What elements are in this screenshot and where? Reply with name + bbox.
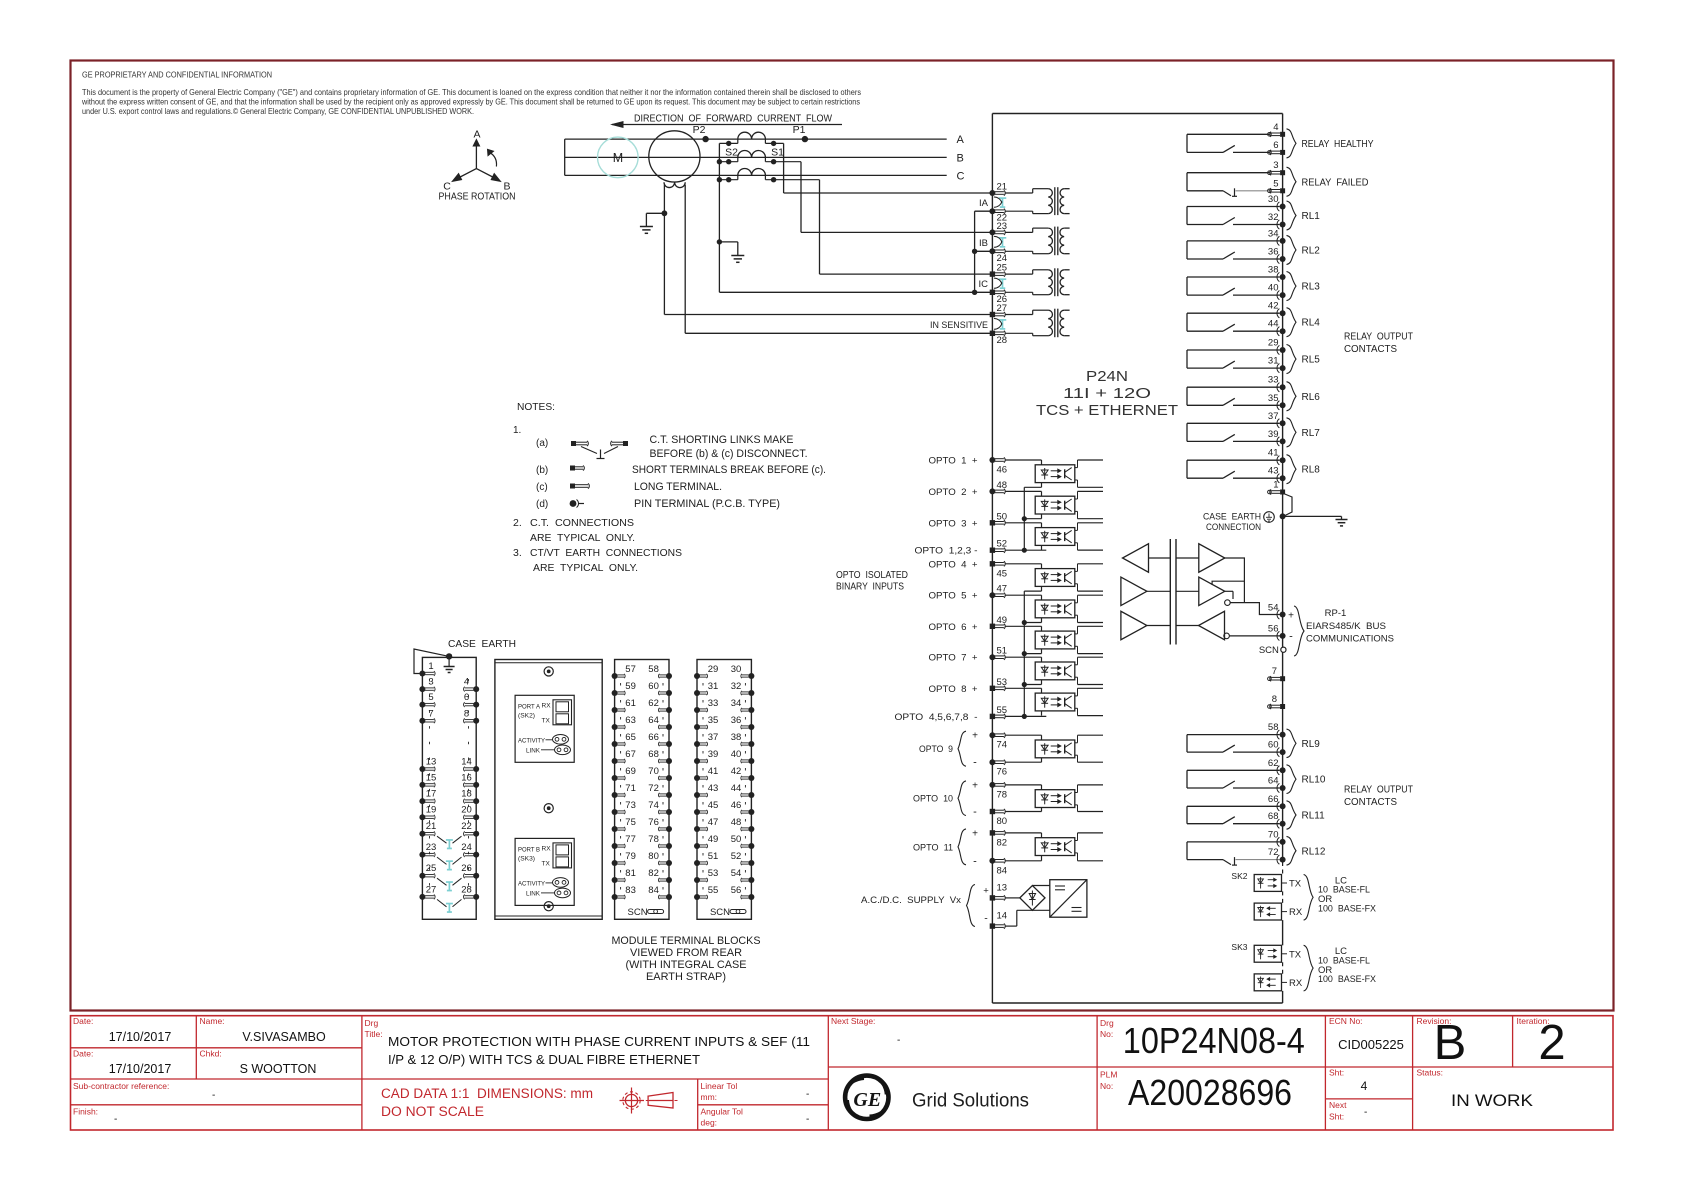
svg-text:28: 28 [461, 884, 472, 895]
svg-text:19: 19 [426, 805, 437, 816]
svg-text:76: 76 [997, 767, 1008, 778]
svg-text:42: 42 [731, 766, 742, 777]
svg-text:51: 51 [708, 851, 719, 862]
svg-text:64: 64 [648, 715, 659, 726]
svg-text:P24N: P24N [1086, 369, 1128, 385]
svg-text:BINARY INPUTS: BINARY INPUTS [836, 582, 904, 593]
svg-text:MOTOR PROTECTION WITH PHASE CU: MOTOR PROTECTION WITH PHASE CURRENT INPU… [388, 1035, 810, 1049]
svg-text:60: 60 [648, 681, 659, 692]
svg-text:28: 28 [997, 335, 1008, 346]
svg-text:72: 72 [1268, 847, 1279, 858]
svg-text:35: 35 [708, 715, 719, 726]
svg-text:34: 34 [731, 698, 742, 709]
svg-text:PORT A: PORT A [518, 703, 541, 710]
svg-text:8: 8 [1272, 694, 1277, 705]
svg-text:50: 50 [997, 511, 1008, 522]
svg-text:21: 21 [997, 182, 1008, 193]
svg-text:ECN No:: ECN No: [1329, 1016, 1363, 1026]
svg-text:75: 75 [625, 817, 636, 828]
svg-text:Next Stage:: Next Stage: [831, 1016, 875, 1026]
svg-text:22: 22 [461, 821, 472, 832]
svg-text:TX: TX [1289, 949, 1302, 960]
svg-text:2: 2 [1538, 1016, 1565, 1070]
svg-text:73: 73 [625, 800, 636, 811]
svg-text:IB: IB [979, 238, 988, 249]
svg-text:17: 17 [426, 789, 437, 800]
svg-text:37: 37 [1268, 411, 1279, 422]
svg-text:5: 5 [1273, 178, 1278, 189]
svg-text:79: 79 [625, 851, 636, 862]
svg-text:30: 30 [1268, 194, 1279, 205]
svg-text:OPTO ISOLATED: OPTO ISOLATED [836, 570, 908, 581]
svg-text:23: 23 [997, 221, 1008, 232]
svg-text:IC: IC [979, 279, 989, 290]
svg-text:7: 7 [1272, 666, 1277, 677]
svg-text:SHORT TERMINALS BREAK BEFORE (: SHORT TERMINALS BREAK BEFORE (c). [632, 464, 826, 476]
svg-text:84: 84 [997, 865, 1008, 876]
svg-text:31: 31 [1268, 356, 1279, 367]
svg-text:OPTO 11: OPTO 11 [913, 842, 953, 853]
svg-text:50: 50 [731, 834, 742, 845]
svg-text:63: 63 [625, 715, 636, 726]
svg-text:ARE TYPICAL ONLY.: ARE TYPICAL ONLY. [530, 532, 635, 544]
svg-text:LINK: LINK [526, 890, 541, 897]
svg-text:ARE TYPICAL ONLY.: ARE TYPICAL ONLY. [533, 562, 638, 574]
svg-text:CID005225: CID005225 [1338, 1037, 1404, 1052]
svg-text:RELAY FAILED: RELAY FAILED [1302, 177, 1369, 188]
svg-text:I/P & 12 O/P) WITH TCS & DUAL: I/P & 12 O/P) WITH TCS & DUAL FIBRE ETHE… [388, 1053, 700, 1067]
svg-text:B: B [1434, 1016, 1467, 1070]
svg-text:Title:: Title: [365, 1029, 383, 1039]
svg-text:49: 49 [997, 615, 1008, 626]
svg-text:40: 40 [731, 749, 742, 760]
svg-text:82: 82 [648, 868, 659, 879]
svg-text:68: 68 [648, 749, 659, 760]
svg-text:11I + 12O: 11I + 12O [1063, 386, 1151, 402]
svg-text:-: - [114, 1114, 117, 1125]
svg-text:-: - [973, 757, 977, 769]
svg-text:6: 6 [464, 692, 469, 703]
svg-text:+: + [972, 731, 978, 742]
svg-text:100 BASE-FX: 100 BASE-FX [1318, 974, 1377, 985]
svg-text:ACTIVITY: ACTIVITY [518, 880, 546, 887]
svg-text:8: 8 [464, 708, 469, 719]
svg-text:45: 45 [708, 800, 719, 811]
svg-text:Next: Next [1329, 1100, 1347, 1110]
svg-text:GE: GE [853, 1089, 881, 1111]
svg-text:EIARS485/K BUS: EIARS485/K BUS [1306, 621, 1386, 632]
svg-text:32: 32 [731, 681, 742, 692]
svg-text:72: 72 [648, 783, 659, 794]
svg-text:RL11: RL11 [1302, 811, 1326, 822]
svg-text:32: 32 [1268, 212, 1279, 223]
svg-text:66: 66 [1268, 794, 1279, 805]
svg-text:47: 47 [997, 584, 1008, 595]
svg-text:1.: 1. [513, 425, 521, 436]
svg-text:29: 29 [1268, 338, 1279, 349]
svg-text:RL12: RL12 [1302, 846, 1326, 857]
svg-text:13: 13 [997, 882, 1008, 893]
svg-text:OPTO 4,5,6,7,8 -: OPTO 4,5,6,7,8 - [895, 712, 978, 723]
svg-text:Date:: Date: [73, 1016, 93, 1026]
svg-text:23: 23 [426, 842, 437, 853]
svg-text:OPTO 3 +: OPTO 3 + [929, 518, 978, 529]
svg-text:CASE EARTH: CASE EARTH [1203, 512, 1261, 523]
svg-text:29: 29 [708, 664, 719, 675]
svg-text:14: 14 [997, 911, 1008, 922]
svg-text:B: B [957, 152, 964, 164]
svg-text:OPTO 5 +: OPTO 5 + [929, 591, 978, 602]
svg-text:Grid Solutions: Grid Solutions [912, 1091, 1029, 1112]
svg-text:PLM: PLM [1100, 1070, 1117, 1080]
svg-text:56: 56 [1268, 624, 1279, 635]
svg-text:SCN: SCN [710, 907, 730, 918]
svg-text:-: - [973, 806, 977, 818]
svg-text:4: 4 [1361, 1079, 1368, 1093]
svg-text:24: 24 [461, 842, 472, 853]
svg-text:PORT B: PORT B [518, 846, 540, 853]
svg-text:47: 47 [708, 817, 719, 828]
svg-text:42: 42 [1268, 301, 1279, 312]
svg-text:TCS + ETHERNET: TCS + ETHERNET [1036, 403, 1178, 419]
svg-text:40: 40 [1268, 283, 1279, 294]
svg-text:48: 48 [997, 480, 1008, 491]
svg-text:26: 26 [461, 863, 472, 874]
svg-text:+: + [972, 828, 978, 839]
svg-text:OPTO 1 +: OPTO 1 + [929, 456, 978, 467]
svg-text:GE PROPRIETARY AND CONFIDENTIA: GE PROPRIETARY AND CONFIDENTIAL INFORMAT… [82, 70, 272, 80]
svg-text:5: 5 [428, 692, 433, 703]
svg-text:21: 21 [426, 821, 437, 832]
svg-text:(a): (a) [536, 438, 548, 449]
svg-text:Sht:: Sht: [1329, 1068, 1344, 1078]
svg-text:RL10: RL10 [1302, 775, 1326, 786]
svg-text:RELAY HEALTHY: RELAY HEALTHY [1302, 139, 1374, 150]
svg-text:27: 27 [426, 884, 437, 895]
svg-text:74: 74 [648, 800, 659, 811]
svg-text:Drg: Drg [365, 1018, 379, 1028]
svg-text:33: 33 [1268, 375, 1279, 386]
svg-text:43: 43 [708, 783, 719, 794]
svg-text:This document is the property: This document is the property of General… [82, 87, 861, 97]
svg-text:COMMUNICATIONS: COMMUNICATIONS [1306, 634, 1394, 645]
svg-text:69: 69 [625, 766, 636, 777]
svg-text:3: 3 [428, 677, 433, 688]
svg-text:CONNECTION: CONNECTION [1206, 522, 1261, 533]
svg-text:Status:: Status: [1417, 1068, 1443, 1078]
svg-text:80: 80 [997, 816, 1008, 827]
svg-text:41: 41 [708, 766, 719, 777]
svg-text:(SK3): (SK3) [518, 855, 535, 862]
svg-text:76: 76 [648, 817, 659, 828]
svg-text:46: 46 [731, 800, 742, 811]
svg-text:36: 36 [731, 715, 742, 726]
svg-text:CAD DATA 1:1 DIMENSIONS: mm: CAD DATA 1:1 DIMENSIONS: mm [381, 1086, 593, 1101]
svg-text:-: - [806, 1114, 809, 1125]
svg-text:-: - [212, 1090, 215, 1101]
svg-text:(c): (c) [536, 482, 548, 493]
svg-text:(d): (d) [536, 499, 548, 510]
svg-text:57: 57 [625, 664, 636, 675]
svg-text:RL9: RL9 [1302, 739, 1321, 750]
svg-text:62: 62 [648, 698, 659, 709]
svg-text:MODULE TERMINAL BLOCKS: MODULE TERMINAL BLOCKS [612, 935, 761, 947]
svg-text:S1: S1 [771, 147, 784, 159]
svg-text:No:: No: [1100, 1081, 1113, 1091]
svg-text:M: M [613, 151, 623, 165]
svg-text:Finish:: Finish: [73, 1107, 98, 1117]
svg-text:RELAY OUTPUT: RELAY OUTPUT [1344, 785, 1413, 796]
svg-text:10P24N08-4: 10P24N08-4 [1123, 1020, 1305, 1061]
svg-text:C.T. SHORTING LINKS MAKE: C.T. SHORTING LINKS MAKE [650, 434, 794, 446]
svg-text:17/10/2017: 17/10/2017 [109, 1062, 172, 1076]
svg-text:54: 54 [731, 868, 742, 879]
svg-text:LONG TERMINAL.: LONG TERMINAL. [634, 481, 722, 493]
svg-text:25: 25 [426, 863, 437, 874]
svg-text:39: 39 [708, 749, 719, 760]
svg-text:1: 1 [1273, 480, 1278, 491]
svg-text:20: 20 [461, 805, 472, 816]
svg-text:13: 13 [426, 757, 437, 768]
svg-text:18: 18 [461, 789, 472, 800]
svg-text:84: 84 [648, 885, 659, 896]
svg-text:44: 44 [1268, 319, 1279, 330]
svg-text:35: 35 [1268, 393, 1279, 404]
svg-text:IA: IA [979, 198, 989, 209]
svg-text:S WOOTTON: S WOOTTON [240, 1062, 317, 1076]
svg-text:62: 62 [1268, 758, 1279, 769]
svg-text:OPTO 10: OPTO 10 [913, 794, 953, 805]
svg-text:-: - [984, 913, 988, 925]
svg-text:under U.S. export control laws: under U.S. export control laws and regul… [82, 106, 474, 116]
svg-text:65: 65 [625, 732, 636, 743]
svg-text:83: 83 [625, 885, 636, 896]
svg-text:-: - [806, 1089, 809, 1100]
svg-text:59: 59 [625, 681, 636, 692]
svg-text:74: 74 [997, 740, 1008, 751]
svg-text:VIEWED FROM REAR: VIEWED FROM REAR [630, 947, 742, 959]
svg-text:70: 70 [1268, 829, 1279, 840]
svg-text:2.: 2. [513, 517, 522, 529]
svg-text:S2: S2 [725, 147, 738, 159]
svg-text:77: 77 [625, 834, 636, 845]
svg-text:-: - [897, 1035, 900, 1046]
svg-text:30: 30 [731, 664, 742, 675]
svg-text:TX: TX [542, 860, 551, 867]
svg-text:PIN TERMINAL (P.C.B. TYPE): PIN TERMINAL (P.C.B. TYPE) [634, 498, 780, 510]
svg-text:+: + [972, 780, 978, 791]
svg-text:67: 67 [625, 749, 636, 760]
svg-text:Date:: Date: [73, 1049, 93, 1059]
svg-text:A: A [957, 134, 965, 146]
svg-text:66: 66 [648, 732, 659, 743]
svg-text:P2: P2 [693, 124, 706, 136]
svg-text:RL3: RL3 [1302, 282, 1321, 293]
svg-text:A20028696: A20028696 [1128, 1072, 1292, 1113]
svg-text:52: 52 [997, 539, 1008, 550]
svg-text:SK2: SK2 [1231, 871, 1247, 881]
svg-text:(WITH INTEGRAL CASE: (WITH INTEGRAL CASE [626, 959, 747, 971]
svg-text:(b): (b) [536, 465, 548, 476]
svg-text:16: 16 [461, 772, 472, 783]
svg-text:TX: TX [1289, 879, 1302, 890]
svg-text:deg:: deg: [701, 1118, 718, 1128]
svg-text:Drg: Drg [1100, 1018, 1114, 1028]
svg-text:OPTO 6 +: OPTO 6 + [929, 622, 978, 633]
svg-text:RX: RX [1289, 978, 1303, 989]
svg-text:A.C./D.C. SUPPLY Vx: A.C./D.C. SUPPLY Vx [861, 895, 961, 906]
svg-text:6: 6 [1273, 140, 1278, 151]
svg-text:OPTO 4 +: OPTO 4 + [929, 559, 978, 570]
svg-text:45: 45 [997, 568, 1008, 579]
svg-text:100 BASE-FX: 100 BASE-FX [1318, 903, 1377, 914]
svg-text:RL6: RL6 [1302, 392, 1321, 403]
svg-text:55: 55 [997, 705, 1008, 716]
svg-text:(SK2): (SK2) [518, 712, 535, 719]
svg-text:80: 80 [648, 851, 659, 862]
svg-text:TX: TX [542, 717, 551, 724]
svg-text:43: 43 [1268, 466, 1279, 477]
svg-text:41: 41 [1268, 448, 1279, 459]
svg-text:OPTO 8 +: OPTO 8 + [929, 684, 978, 695]
svg-text:SCN: SCN [628, 907, 648, 918]
svg-text:17/10/2017: 17/10/2017 [109, 1030, 172, 1044]
svg-text:58: 58 [648, 664, 659, 675]
svg-text:15: 15 [426, 772, 437, 783]
svg-text:38: 38 [731, 732, 742, 743]
svg-text:Sub-contractor reference:: Sub-contractor reference: [73, 1081, 169, 1091]
svg-text:CT/VT EARTH CONNECTIONS: CT/VT EARTH CONNECTIONS [530, 547, 682, 559]
svg-text:OPTO 7 +: OPTO 7 + [929, 653, 978, 664]
svg-text:BEFORE (b) & (c) DISCONNECT.: BEFORE (b) & (c) DISCONNECT. [650, 448, 808, 460]
svg-text:+: + [983, 885, 989, 896]
svg-text:No:: No: [1100, 1029, 1113, 1039]
svg-text:V.SIVASAMBO: V.SIVASAMBO [242, 1030, 326, 1044]
svg-text:ACTIVITY: ACTIVITY [518, 737, 546, 744]
svg-text:37: 37 [708, 732, 719, 743]
svg-text:53: 53 [997, 677, 1008, 688]
svg-text:C: C [957, 170, 965, 182]
svg-text:54: 54 [1268, 603, 1279, 614]
svg-text:33: 33 [708, 698, 719, 709]
svg-text:RP-1: RP-1 [1325, 608, 1347, 619]
svg-text:39: 39 [1268, 429, 1279, 440]
svg-text:27: 27 [997, 303, 1008, 314]
svg-text:NOTES:: NOTES: [517, 401, 555, 413]
svg-text:RL2: RL2 [1302, 245, 1321, 256]
svg-text:70: 70 [648, 766, 659, 777]
svg-text:48: 48 [731, 817, 742, 828]
svg-text:CONTACTS: CONTACTS [1344, 797, 1397, 808]
svg-text:14: 14 [461, 757, 472, 768]
svg-text:44: 44 [731, 783, 742, 794]
svg-text:68: 68 [1268, 811, 1279, 822]
svg-text:RL8: RL8 [1302, 465, 1321, 476]
svg-text:RL5: RL5 [1302, 355, 1321, 366]
svg-text:7: 7 [428, 708, 433, 719]
svg-text:78: 78 [648, 834, 659, 845]
svg-text:+: + [1288, 611, 1294, 622]
svg-text:-: - [1289, 631, 1293, 643]
svg-text:1: 1 [428, 661, 433, 672]
svg-text:4: 4 [464, 677, 469, 688]
svg-text:RL4: RL4 [1302, 318, 1321, 329]
svg-text:49: 49 [708, 834, 719, 845]
svg-text:Name:: Name: [200, 1016, 225, 1026]
svg-text:71: 71 [625, 783, 636, 794]
svg-text:CONTACTS: CONTACTS [1344, 344, 1397, 355]
svg-text:A: A [473, 129, 480, 141]
svg-text:53: 53 [708, 868, 719, 879]
svg-text:RELAY OUTPUT: RELAY OUTPUT [1344, 332, 1413, 343]
svg-text:81: 81 [625, 868, 636, 879]
svg-text:Sht:: Sht: [1329, 1112, 1344, 1122]
svg-text:36: 36 [1268, 247, 1279, 258]
svg-text:OPTO 9: OPTO 9 [919, 744, 953, 755]
svg-text:-: - [973, 855, 977, 867]
svg-text:38: 38 [1268, 265, 1279, 276]
svg-text:P1: P1 [793, 124, 806, 136]
svg-text:25: 25 [997, 263, 1008, 274]
svg-text:without the express written co: without the express written consent of G… [81, 97, 860, 107]
svg-text:EARTH STRAP): EARTH STRAP) [646, 971, 726, 983]
svg-text:OPTO 2 +: OPTO 2 + [929, 487, 978, 498]
svg-text:56: 56 [731, 885, 742, 896]
svg-text:60: 60 [1268, 740, 1279, 751]
svg-text:RX: RX [542, 845, 552, 852]
svg-text:34: 34 [1268, 228, 1279, 239]
svg-text:Chkd:: Chkd: [200, 1049, 222, 1059]
svg-text:58: 58 [1268, 722, 1279, 733]
svg-text:LINK: LINK [526, 747, 541, 754]
svg-text:51: 51 [997, 646, 1008, 657]
svg-text:DIRECTION OF FORWARD CURREN: DIRECTION OF FORWARD CURRENT FLOW [634, 113, 832, 125]
svg-text:DO NOT SCALE: DO NOT SCALE [381, 1104, 484, 1119]
svg-text:RL1: RL1 [1302, 211, 1321, 222]
svg-text:RX: RX [542, 702, 552, 709]
svg-text:31: 31 [708, 681, 719, 692]
svg-text:mm:: mm: [701, 1092, 718, 1102]
svg-text:78: 78 [997, 789, 1008, 800]
svg-text:64: 64 [1268, 776, 1279, 787]
svg-text:PHASE ROTATION: PHASE ROTATION [439, 191, 516, 203]
svg-text:Linear Tol: Linear Tol [701, 1081, 738, 1091]
svg-text:82: 82 [997, 837, 1008, 848]
svg-text:C.T. CONNECTIONS: C.T. CONNECTIONS [530, 517, 634, 529]
svg-text:3: 3 [1273, 160, 1278, 171]
svg-text:Angular Tol: Angular Tol [701, 1107, 743, 1117]
svg-text:46: 46 [997, 465, 1008, 476]
svg-text:-: - [1364, 1107, 1367, 1118]
svg-text:61: 61 [625, 698, 636, 709]
svg-text:IN SENSITIVE: IN SENSITIVE [930, 320, 988, 331]
svg-text:4: 4 [1273, 122, 1278, 133]
svg-text:SK3: SK3 [1231, 942, 1247, 952]
svg-text:RL7: RL7 [1302, 428, 1321, 439]
svg-text:OPTO 1,2,3 -: OPTO 1,2,3 - [915, 546, 978, 557]
svg-text:3.: 3. [513, 547, 522, 559]
svg-text:CASE EARTH: CASE EARTH [448, 638, 516, 650]
svg-text:IN WORK: IN WORK [1451, 1092, 1533, 1110]
svg-text:SCN: SCN [1259, 645, 1279, 656]
svg-text:RX: RX [1289, 907, 1303, 918]
svg-text:55: 55 [708, 885, 719, 896]
svg-text:52: 52 [731, 851, 742, 862]
